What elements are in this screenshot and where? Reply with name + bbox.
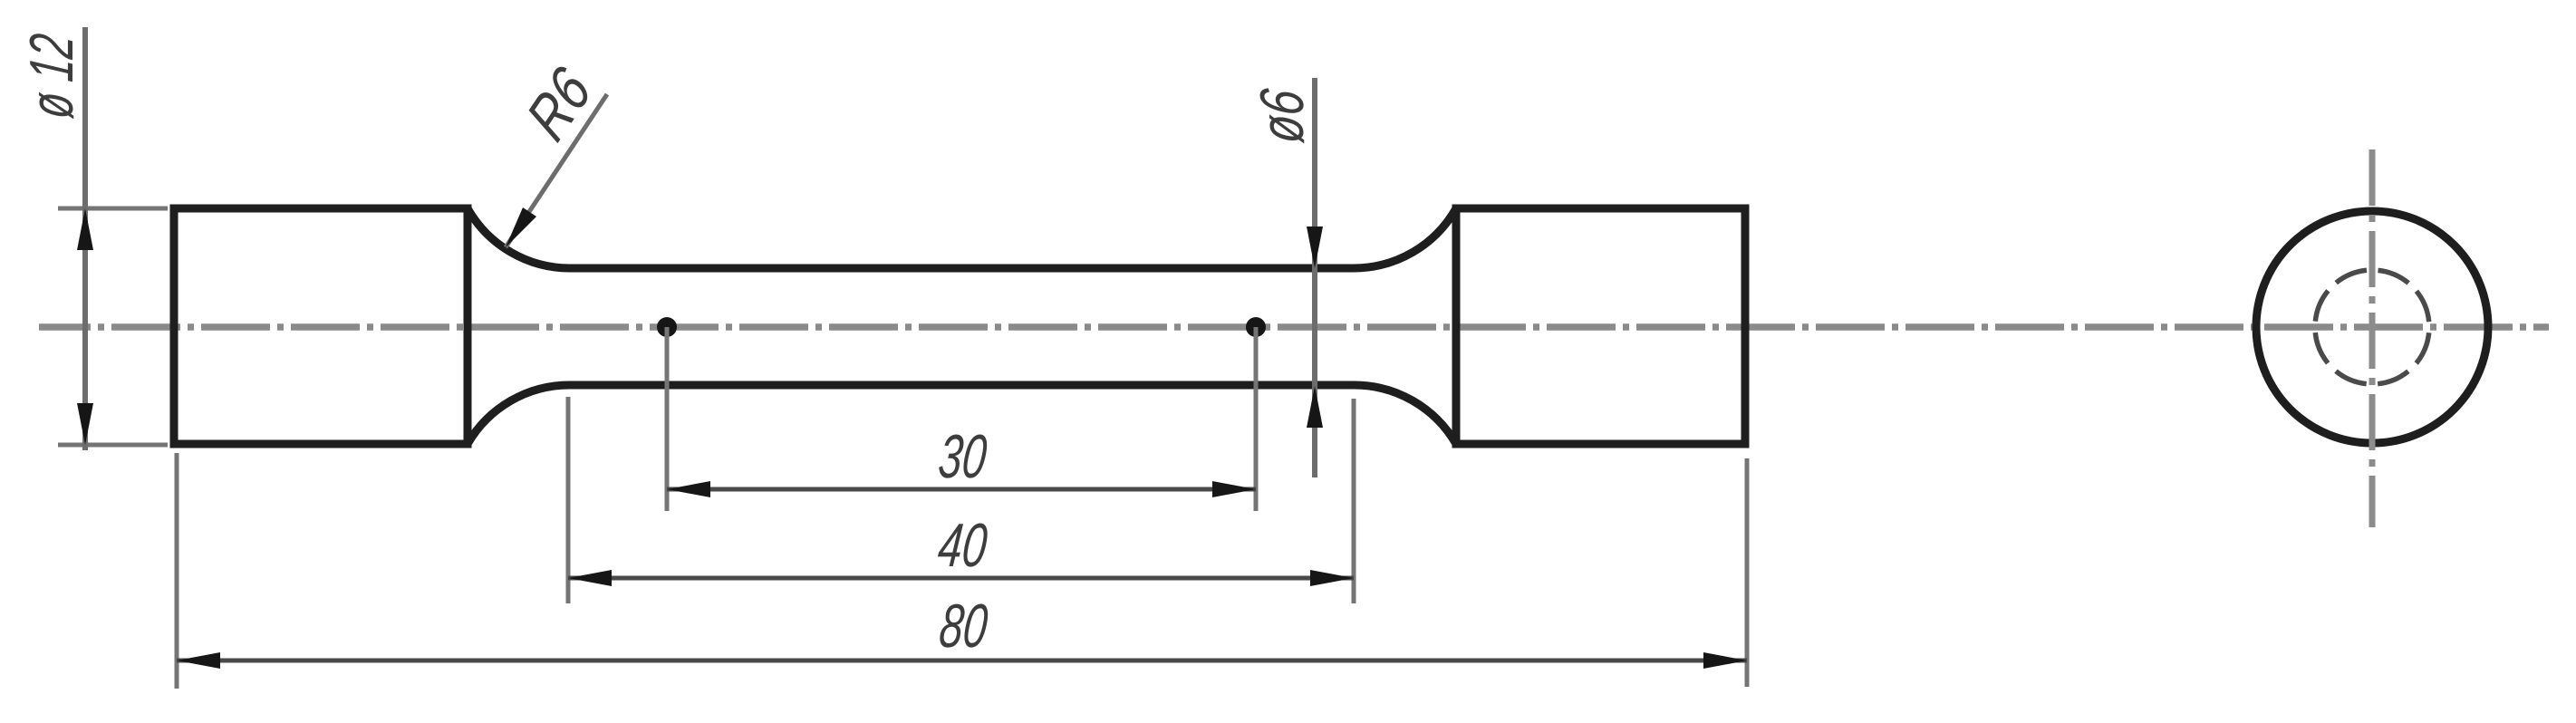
svg-text:40: 40 <box>935 511 990 580</box>
end view inner dashed circle <box>2315 270 2429 384</box>
fillet bottom-left R6 <box>468 385 570 444</box>
dimension 30 extension right <box>1254 327 1259 511</box>
dimension 30 arrow right <box>1212 481 1256 497</box>
dimension D12 line <box>82 27 88 450</box>
dimension D12 arrow up <box>77 208 93 250</box>
dimension 80 line <box>177 659 1747 663</box>
dimension D12 extension top <box>58 207 168 211</box>
specimen left grip block <box>174 208 468 444</box>
end view vertical centerline <box>2369 149 2376 527</box>
dimension 80 extension right <box>1745 458 1750 687</box>
specimen right grip block <box>1456 208 1745 444</box>
gauge section bottom line <box>570 381 1354 390</box>
dimension D6 arrow up <box>1307 386 1323 428</box>
leader R6 line <box>506 94 607 247</box>
dimension 30 extension left <box>665 327 670 511</box>
dimension 30 line <box>667 487 1256 492</box>
dimension 80 extension left <box>175 453 179 689</box>
svg-text:ø6: ø6 <box>1248 86 1317 146</box>
dimension D6 line <box>1312 78 1317 477</box>
dimension D6 arrow down <box>1307 227 1323 268</box>
dimension D12 arrow down <box>77 403 93 445</box>
dimension 40 arrow left <box>568 570 612 586</box>
dimension 40 extension right <box>1352 399 1356 603</box>
dimension 80 arrow left <box>177 652 220 669</box>
dimension 80 arrow right <box>1703 652 1747 669</box>
dimension 30 arrow left <box>667 481 710 497</box>
gauge point right <box>1246 317 1266 337</box>
gauge section top line <box>570 265 1354 273</box>
gauge point left <box>657 317 677 337</box>
svg-text:80: 80 <box>936 592 990 660</box>
dimension 40 line <box>568 576 1354 581</box>
fillet top-right R6 <box>1354 208 1456 268</box>
dimension 40 arrow right <box>1310 570 1354 586</box>
leader R6 arrow <box>506 207 536 247</box>
svg-text:ø 12: ø 12 <box>17 31 86 121</box>
end view outer circle <box>2256 211 2488 443</box>
fillet bottom-right R6 <box>1354 385 1456 444</box>
centerline horizontal axis <box>39 323 2549 331</box>
dimension 40 extension left <box>566 397 571 603</box>
svg-text:30: 30 <box>935 422 989 491</box>
fillet top-left R6 <box>468 208 570 268</box>
dimension D12 extension bottom <box>58 443 168 448</box>
